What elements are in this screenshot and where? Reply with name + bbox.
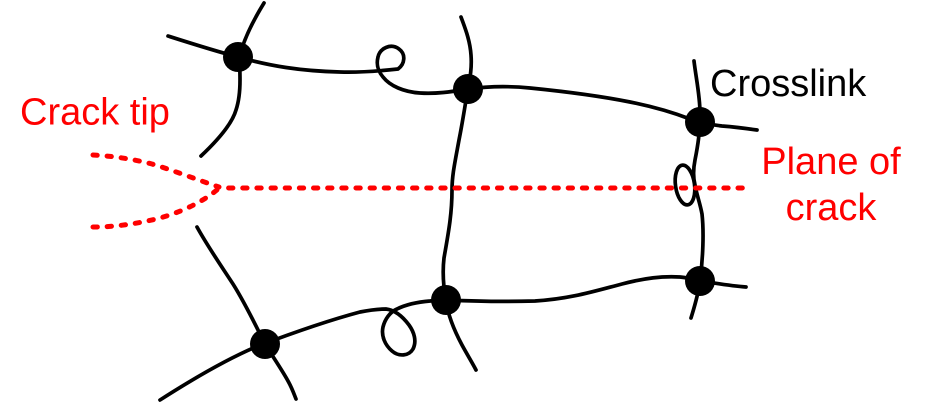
crosslink dot B xyxy=(453,74,483,104)
svg-text:Crack tip: Crack tip xyxy=(20,92,170,134)
narrow chain loop curl at crack plane near C strand xyxy=(673,164,697,206)
polymer chain top horizontal strand with small loop, through A, B, C xyxy=(168,36,757,130)
polymer chain bottom horizontal strand with loop, through E, D, F xyxy=(160,277,746,400)
crack tip upper dashed branch xyxy=(93,155,219,187)
crosslink dot D xyxy=(431,285,461,315)
crosslink dot A xyxy=(223,42,253,72)
polymer chain through crosslink A (vertical strand, severed at crack) xyxy=(201,3,264,156)
crosslink dot E xyxy=(250,329,280,359)
svg-text:crack: crack xyxy=(786,187,878,229)
plane of crack horizontal dashed line xyxy=(229,186,744,191)
crosslink dot C xyxy=(685,107,715,137)
svg-text:Plane of: Plane of xyxy=(761,141,901,183)
polymer chain severed strand through E below crack xyxy=(197,227,296,399)
polymer chain vertical strand through B and D crossing crack plane xyxy=(443,17,476,370)
crack tip lower dashed branch xyxy=(93,188,219,227)
svg-text:Crosslink: Crosslink xyxy=(710,63,867,105)
polymer chain vertical strand through C and F crossing crack plane xyxy=(691,61,703,318)
crosslink dot F xyxy=(685,266,715,296)
